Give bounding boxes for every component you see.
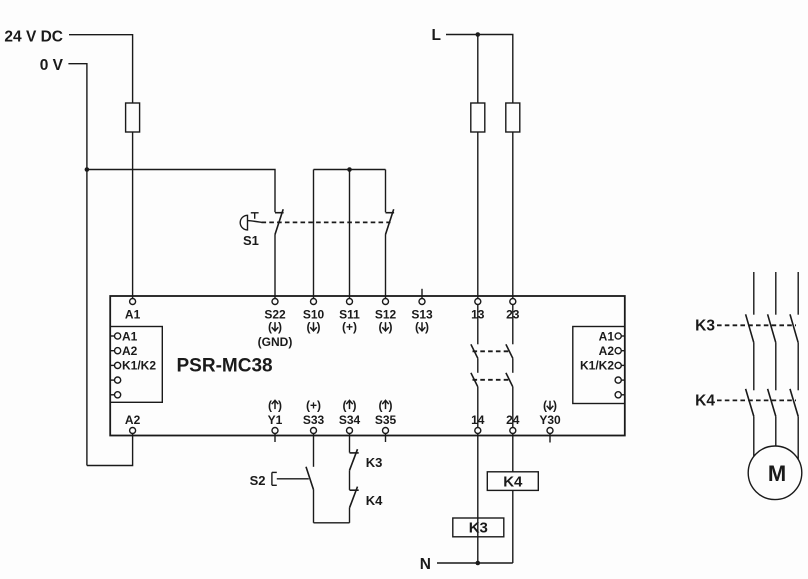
svg-text:M: M (768, 461, 786, 486)
wire S1 contact 2 to terminal S12 (385, 235, 387, 299)
svg-text:S35: S35 (375, 413, 397, 427)
svg-text:K3: K3 (469, 520, 488, 537)
K3 contactor dashed link (717, 324, 796, 326)
terminal S34 (339, 399, 361, 434)
svg-text:(GND): (GND) (258, 335, 293, 349)
svg-text:(: ( (343, 399, 347, 413)
wire phase 3 (797, 272, 799, 315)
svg-text:13: 13 (471, 308, 485, 322)
indicator block right (573, 327, 625, 404)
wire phase 3 to motor (797, 416, 799, 459)
svg-text:24: 24 (506, 413, 520, 427)
terminal S10 (303, 299, 325, 335)
wire S34 to contact K3 (349, 434, 351, 453)
wire 14 to coil K3 (477, 434, 479, 563)
contact link dashed lower (473, 379, 510, 381)
svg-text:): ) (278, 320, 282, 334)
wire 0V rail down (68, 64, 87, 466)
svg-text:N: N (420, 556, 431, 573)
svg-text:S33: S33 (303, 413, 325, 427)
wire contact K4 to bottom link (349, 508, 351, 523)
wire 0V junction to switch S1 (87, 170, 275, 213)
svg-text:Y1: Y1 (268, 413, 283, 427)
svg-text:A1: A1 (125, 308, 141, 322)
switch S2 contact (NO) (306, 467, 314, 490)
svg-text:): ) (389, 399, 393, 413)
terminal 24 (506, 413, 520, 434)
svg-text:): ) (278, 399, 282, 413)
wire header to terminal S10 (313, 170, 315, 299)
wire L junction to fuse F2 (477, 35, 479, 104)
svg-text:(+): (+) (342, 320, 357, 334)
contact K4 aux (NO) (350, 487, 359, 508)
relay contact 13-14 (471, 305, 478, 428)
switch S1 contact 2 (NC) (386, 209, 395, 234)
terminal 14 (471, 413, 485, 434)
svg-text:): ) (389, 320, 393, 334)
svg-text:PSR-MC38: PSR-MC38 (177, 356, 273, 377)
terminal S35 (375, 399, 397, 443)
svg-text:): ) (553, 399, 557, 413)
wire phase 2 to motor (775, 416, 777, 446)
contactor K3 main contacts (746, 314, 799, 342)
wire L rail (446, 35, 513, 104)
indicator block left (110, 327, 162, 403)
wire contact K3 to contact K4 (349, 470, 351, 490)
svg-text:): ) (317, 320, 321, 334)
svg-text:K1/K2: K1/K2 (122, 359, 156, 373)
svg-text:(: ( (543, 399, 547, 413)
wire 24V rail to fuse F1 (69, 35, 133, 103)
svg-text:A2: A2 (599, 344, 615, 358)
coil K3 (453, 518, 504, 537)
svg-text:24 V DC: 24 V DC (4, 29, 63, 46)
terminal S11 (339, 299, 360, 335)
svg-text:S34: S34 (339, 413, 361, 427)
svg-text:K1/K2: K1/K2 (580, 359, 614, 373)
wire coil K4 to N (512, 490, 514, 563)
contactor K4 main contacts (746, 389, 799, 417)
relay contact 23-24 (506, 305, 513, 428)
terminal S33 (303, 399, 325, 434)
emergency stop S1 actuator (mushroom head) (240, 213, 261, 230)
svg-text:A2: A2 (122, 344, 138, 358)
svg-text:): ) (425, 320, 429, 334)
K4 contactor dashed link (717, 399, 796, 401)
svg-text:): ) (353, 399, 357, 413)
terminal 23 (506, 299, 520, 322)
svg-text:A1: A1 (122, 329, 138, 343)
wire phase 2 mid (775, 343, 777, 391)
wire 24 to coil K4 (512, 434, 514, 472)
node S11 junction (347, 167, 352, 172)
node L junction (476, 32, 481, 37)
terminal Y30 (539, 399, 561, 443)
contact K3 aux (NO) (350, 449, 359, 470)
terminal S13 (411, 289, 433, 334)
wire F3 to terminal 23 (512, 132, 514, 298)
svg-text:A1: A1 (599, 329, 615, 343)
wire 0V return to terminal A2 (87, 434, 133, 466)
svg-text:K4: K4 (503, 473, 523, 490)
svg-text:S2: S2 (250, 473, 266, 488)
svg-text:Y30: Y30 (539, 413, 561, 427)
terminal S22 (258, 299, 293, 349)
wire phase 2 (775, 272, 777, 315)
svg-text:(: ( (307, 320, 311, 334)
S1 actuator dashed link (262, 221, 391, 223)
svg-text:L: L (432, 27, 441, 44)
node N junction (476, 561, 481, 566)
terminal S12 (375, 299, 397, 335)
wire F2 to terminal 13 (477, 132, 479, 298)
pushbutton S2 actuator bracket (272, 472, 309, 485)
wire F1 to terminal A1 (132, 132, 134, 298)
svg-text:14: 14 (471, 413, 485, 427)
svg-text:(: ( (268, 399, 272, 413)
contact link dashed upper (473, 350, 510, 352)
wire phase 1 (753, 272, 755, 315)
svg-text:K3: K3 (366, 455, 383, 470)
relay U1 PSR-MC38 body (110, 296, 625, 436)
wire S2 to bottom link (313, 490, 315, 523)
wire N rail (437, 562, 513, 564)
wire junction to terminal S11 (349, 170, 351, 299)
motor M (748, 446, 802, 500)
svg-text:K4: K4 (366, 493, 383, 508)
terminal A1 (125, 299, 141, 322)
terminal Y1 (268, 399, 283, 443)
wire phase 1 to motor (753, 416, 755, 456)
wire header to switch S1 contact 2 (385, 170, 387, 213)
svg-text:K3: K3 (695, 318, 715, 335)
wire header S10-S12 (314, 169, 386, 171)
wire bottom link (314, 522, 350, 524)
coil K4 (487, 472, 538, 491)
fuse F3 (506, 103, 520, 132)
svg-text:K4: K4 (695, 392, 715, 409)
terminal A2 (125, 413, 141, 434)
svg-text:A2: A2 (125, 413, 141, 427)
svg-text:(: ( (379, 320, 383, 334)
terminal 13 (471, 299, 485, 322)
svg-text:(: ( (379, 399, 383, 413)
fuse F1 (126, 103, 140, 132)
wire S33 to switch S2 (313, 434, 315, 467)
switch S1 contact 1 (NC) (275, 209, 284, 234)
svg-text:(: ( (268, 320, 272, 334)
wire phase 1 mid (753, 343, 755, 391)
svg-text:(: ( (415, 320, 419, 334)
wire S1 contact 1 to terminal S22 (274, 235, 276, 299)
svg-text:S1: S1 (243, 233, 259, 248)
node 0V junction (85, 167, 90, 172)
svg-text:23: 23 (506, 308, 520, 322)
fuse F2 (471, 103, 485, 132)
svg-text:0 V: 0 V (40, 57, 64, 74)
wire phase 3 mid (797, 343, 799, 391)
svg-text:(+): (+) (306, 399, 321, 413)
